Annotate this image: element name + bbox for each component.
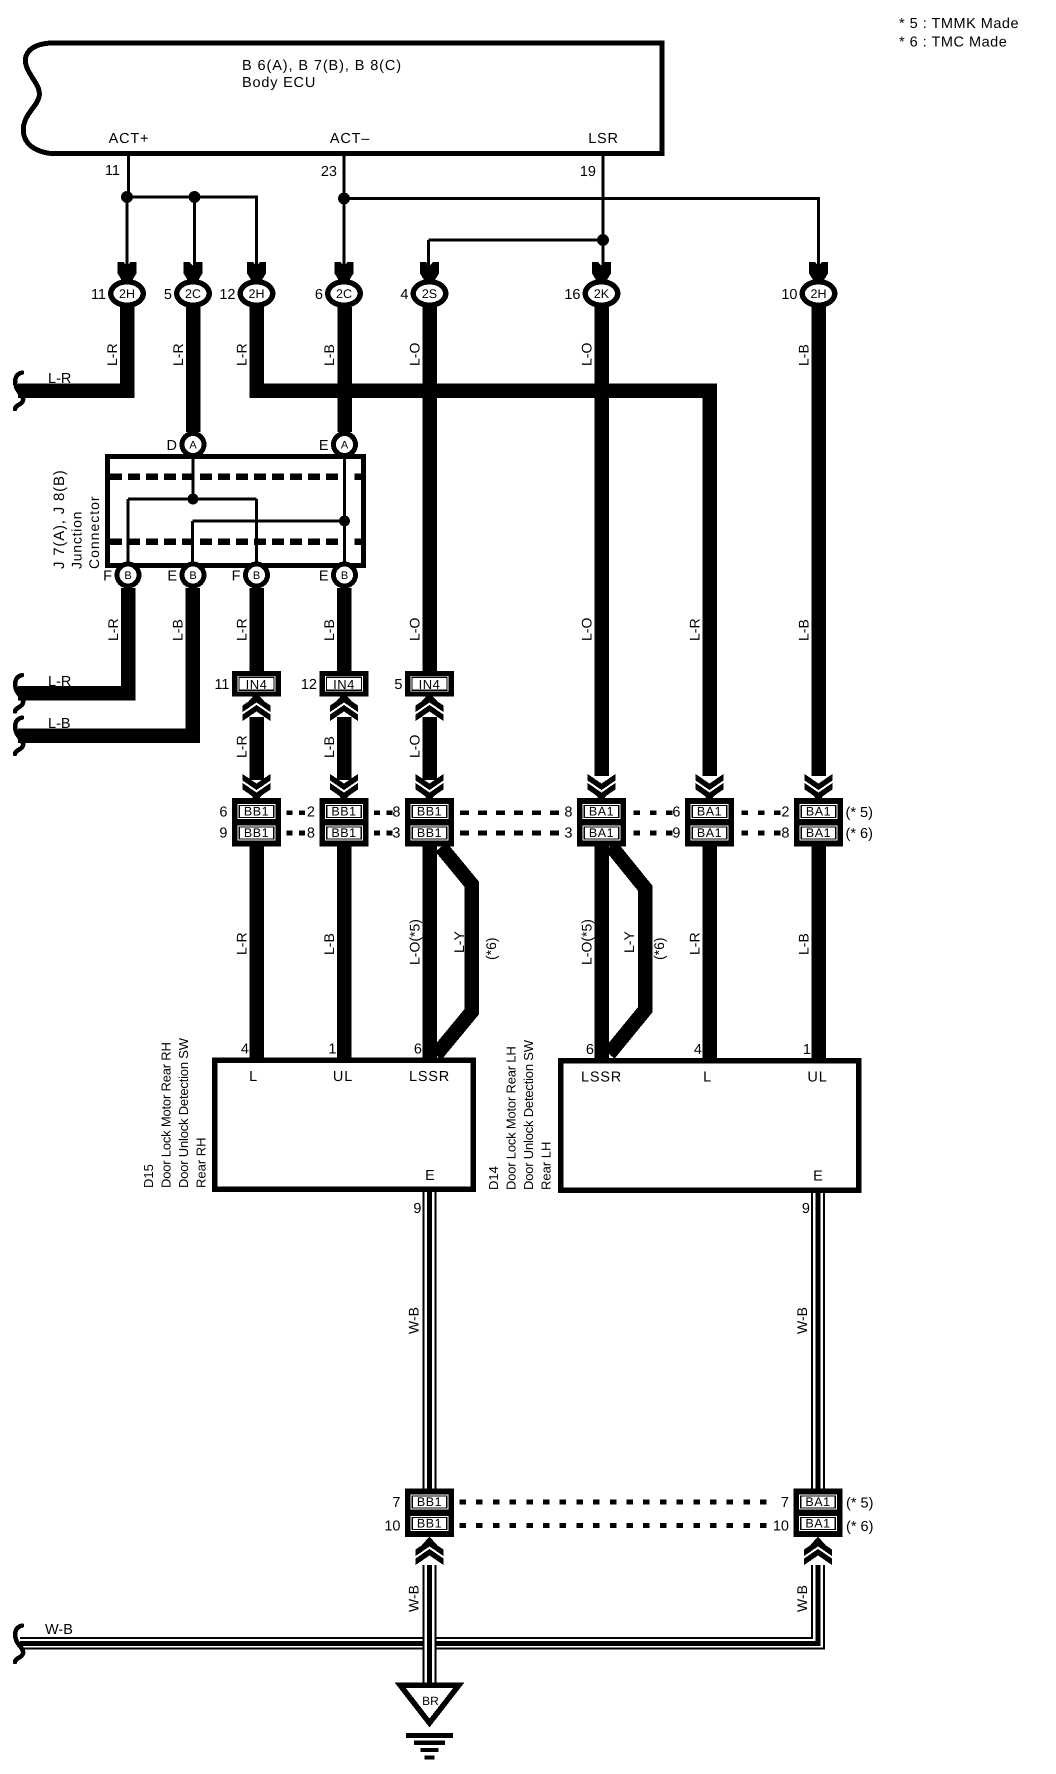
W-B ground bus horizontal [20,1637,825,1650]
svg-text:L-R: L-R [104,343,120,366]
connector stack 7/10 BA1 bottom [773,1489,843,1538]
svg-text:L-R: L-R [170,343,186,366]
wire col6 from connector down to BA1 [594,307,609,776]
internal junction dot D [188,494,199,505]
wire L-Y(*6) branch right LSSR [609,846,645,1054]
svg-text:1: 1 [803,1042,811,1058]
svg-text:BB1: BB1 [417,826,442,840]
wire ACT+ branch horizontal [127,196,258,199]
wire label L-B mid column x=344 [321,619,337,641]
svg-text:4: 4 [241,1042,249,1058]
wire label L-O below connector at x=601.5 [579,343,595,366]
variant note (*6) bottom [846,1519,873,1535]
dashed link BB1 row [287,810,781,835]
wire label L-B col4 lower [321,933,337,955]
svg-text:BA1: BA1 [805,1517,830,1531]
pin 23 number [321,164,337,180]
svg-text:Door Unlock Detection SW: Door Unlock Detection SW [521,1039,536,1190]
wire L-B col7 to D14 pin 1 [811,847,826,1062]
svg-text:Rear RH: Rear RH [194,1137,209,1188]
svg-text:19: 19 [580,164,596,180]
arrow into BB1/BA1 at x=818.5 [805,774,833,802]
internal drop to F/B col3 [255,499,258,563]
svg-text:L-O: L-O [407,343,423,366]
svg-text:W-B: W-B [406,1585,422,1612]
junction connector J7(A) J8(B) box [108,457,364,566]
svg-text:BB1: BB1 [331,826,356,840]
svg-text:D15: D15 [141,1164,156,1188]
pin ACT- label [330,131,370,147]
svg-text:6: 6 [414,1042,422,1058]
wire L-B col4 to D15 pin 1 [337,847,352,1061]
svg-text:2H: 2H [119,287,135,301]
svg-text:ACT+: ACT+ [109,131,150,147]
connector stack 8/3 BB1 at x=429.5 [392,798,454,847]
svg-text:L-R: L-R [48,371,71,387]
svg-text:2: 2 [307,805,315,821]
svg-text:L-O: L-O [579,618,595,641]
svg-text:E: E [319,438,329,454]
svg-text:A: A [341,440,349,452]
wire label L-O IN4-BB1 x=429.5 [407,735,423,758]
svg-text:L: L [249,1069,258,1085]
svg-text:12: 12 [301,677,317,693]
arrow into BB1/BA1 at x=709.5 [696,774,724,802]
svg-text:L-B: L-B [796,344,812,366]
svg-text:16: 16 [564,287,580,303]
W-B wire D14 pin E down [811,1190,825,1489]
svg-text:2S: 2S [422,287,437,301]
svg-text:Door Unlock Detection SW: Door Unlock Detection SW [176,1037,191,1188]
D14 pin label E [813,1169,823,1185]
svg-text:LSR: LSR [588,131,619,147]
D14 pin 6 number [586,1042,594,1058]
svg-text:B: B [189,570,196,582]
svg-text:8: 8 [307,826,315,842]
connector 12 2H [219,279,275,308]
wire label (*6) col5 branch [483,937,499,960]
arrow into connector 12 2H [247,262,266,281]
junction dot ACT+ at col2 [189,191,201,203]
svg-text:J 7(A), J 8(B): J 7(A), J 8(B) [51,469,68,569]
D15 pin label UL [333,1069,353,1085]
wire label L-R below connector at x=127 [104,343,120,366]
internal wire from pin D/A [192,458,195,499]
internal wire from pin E/A [343,458,346,521]
pin 11 number [105,163,120,179]
D14 pin label LSSR [581,1070,622,1086]
wire label L-R mid column x=709.5 [687,618,703,641]
connector 16 2K [564,279,620,308]
junction connector dashed bus 1 [110,473,362,480]
label L-B break [48,716,71,732]
svg-text:L-R: L-R [105,618,121,641]
D15 pin 4 number [241,1042,249,1058]
svg-text:L-Y: L-Y [621,931,637,953]
ground BR triangle [400,1685,459,1723]
wire below IN4 11 [249,717,264,780]
svg-text:E: E [813,1169,823,1185]
svg-text:7: 7 [392,1495,400,1511]
svg-text:L-B: L-B [796,933,812,955]
wire L-R col1 from connector down [120,307,135,398]
svg-text:11: 11 [214,677,229,693]
connector stack 2/8 BB1 at x=344 [307,798,369,847]
wire L-R col1 below junction [121,588,136,701]
wire col3 from connector down [249,307,264,398]
svg-text:L-R: L-R [234,618,250,641]
W-B label left mid [406,1307,422,1334]
svg-text:UL: UL [807,1070,827,1086]
svg-text:F: F [103,569,112,585]
wire L-R col3 to D15 pin 4 [249,847,264,1061]
svg-text:B: B [341,570,348,582]
junction pin E A [319,431,358,458]
svg-text:BA1: BA1 [805,1495,830,1509]
wire LSR pin 19 down [602,156,605,240]
svg-text:L-B: L-B [321,344,337,366]
wire col5 drop to connector [427,240,430,267]
svg-text:(* 5): (* 5) [846,805,873,821]
junction pin F B col1 [103,562,141,589]
svg-text:L-B: L-B [796,619,812,641]
arrow into connector 6 2C [335,262,354,281]
svg-text:W-B: W-B [406,1307,422,1334]
wire label L-R col6b lower [687,932,703,955]
svg-text:L-O(*5): L-O(*5) [579,919,595,965]
svg-text:8: 8 [392,805,400,821]
W-B wire below BB1 [423,1565,437,1686]
svg-text:10: 10 [773,1519,789,1535]
connector stack 2/8 BA1 at x=818.5 [781,798,843,847]
svg-text:D: D [167,438,177,454]
note *5 TMMK Made [899,16,1019,32]
connector 5 2C [164,279,212,308]
wire label L-O mid column x=429.5 [407,618,423,641]
svg-text:3: 3 [564,826,572,842]
connector 11 IN4 [214,671,281,697]
arrow below IN4 12 [330,693,358,722]
svg-text:W-B: W-B [794,1307,810,1334]
svg-text:3: 3 [392,826,400,842]
junction dot ACT- [338,193,350,205]
svg-text:B 6(A), B 7(B), B 8(C): B 6(A), B 7(B), B 8(C) [242,58,402,74]
svg-text:L-R: L-R [234,735,250,758]
internal junction dot E [339,516,350,527]
wire col4 to connector [343,199,346,268]
svg-text:L-O: L-O [579,343,595,366]
svg-text:BB1: BB1 [417,1517,442,1531]
label W-B at break [45,1622,73,1638]
svg-text:6: 6 [586,1042,594,1058]
arrow into BB1/BA1 at x=344 [330,774,358,802]
svg-text:A: A [189,440,197,452]
svg-text:2C: 2C [336,287,352,301]
svg-text:(* 5): (* 5) [846,1496,873,1512]
svg-text:L-R: L-R [234,932,250,955]
svg-text:BA1: BA1 [589,826,614,840]
wire label L-R IN4-BB1 x=256.5 [234,735,250,758]
svg-text:BB1: BB1 [331,805,356,819]
wire label L-R below connector at x=256.5 [234,343,250,366]
D15 left label block [141,1037,209,1188]
junction connector label [51,469,102,569]
wire col4 from connector to junction A [337,307,352,432]
svg-text:5: 5 [164,287,172,303]
connector stack 8/3 BA1 at x=601.5 [564,798,626,847]
arrow into connector 4 2S [420,262,439,281]
wire ACT+ pin 11 down [127,156,130,197]
wire label (*6) col6 branch [651,937,667,960]
W-B wire D15 pin E down [423,1189,437,1489]
svg-text:L-B: L-B [170,619,186,641]
svg-text:10: 10 [781,287,797,303]
svg-text:23: 23 [321,164,337,180]
svg-text:BR: BR [422,1694,439,1708]
svg-text:(*6): (*6) [651,937,667,960]
wire below IN4 12 [337,717,352,780]
arrow into BB1/BA1 at x=601.5 [588,774,616,802]
wire label L-B mid column x=818.5 [796,619,812,641]
svg-text:Junction: Junction [69,511,85,569]
arrow below IN4 11 [243,693,271,722]
svg-text:4: 4 [694,1042,702,1058]
arrow into connector 10 2H [809,262,828,281]
variant note (*5) row1 [846,805,873,821]
D14 pin 9 number [802,1201,810,1217]
wire col7 from connector down to BA1 [811,307,826,776]
wire label L-O below connector at x=429.5 [407,343,423,366]
door lock motor rear LH D14 box [561,1061,859,1191]
svg-text:IN4: IN4 [419,677,441,692]
svg-text:BB1: BB1 [417,1495,442,1509]
connector 5 IN4 [394,671,454,697]
svg-text:IN4: IN4 [333,677,355,692]
wire col5 from connector down to IN4 [422,307,437,671]
wire col6b vertical down to BA1 [702,384,717,777]
wire L-R col6b to D14 pin 4 [702,847,717,1062]
svg-text:B: B [124,570,131,582]
junction connector dashed bus 2 [110,538,362,545]
svg-text:BB1: BB1 [244,805,269,819]
arrow below bottom BA1 [804,1537,832,1566]
D15 pin 9 number [413,1201,421,1217]
svg-text:ACT–: ACT– [330,131,370,147]
wire L-B horizontal to break [18,729,200,744]
connector stack 6/9 BB1 at x=256.5 [219,798,281,847]
internal bus E [193,520,345,523]
internal drop to E/B col2 [191,521,194,563]
svg-text:11: 11 [105,163,120,179]
svg-text:L-O(*5): L-O(*5) [407,919,423,965]
svg-text:Door Lock Motor Rear RH: Door Lock Motor Rear RH [159,1042,174,1188]
connector 10 2H [781,279,837,308]
svg-text:6: 6 [672,805,680,821]
svg-text:2H: 2H [811,287,827,301]
dashed link bottom row [460,1500,767,1529]
wire col3 horizontal to col6b [249,384,717,399]
internal drop to E/B col4 [343,521,346,563]
svg-text:L-R: L-R [234,343,250,366]
junction pin F B col3 [232,562,270,589]
svg-text:BB1: BB1 [244,826,269,840]
connector stack 6/9 BA1 at x=709.5 [672,798,734,847]
svg-text:W-B: W-B [45,1622,73,1638]
wire break symbol L-B [15,718,23,755]
W-B label right low [794,1585,810,1612]
wire ACT- branch horizontal [344,197,820,200]
arrow into BB1/BA1 at x=256.5 [243,774,271,802]
variant note (*6) row2 [846,826,873,842]
ground hatch [406,1733,453,1760]
svg-text:L-O: L-O [407,618,423,641]
wire L-O(*5) col5 to D15 pin 6 [422,847,437,1061]
D15 pin label LSSR [409,1069,450,1085]
svg-text:Rear LH: Rear LH [539,1142,554,1190]
svg-text:L-B: L-B [321,736,337,758]
svg-text:2: 2 [781,805,789,821]
note *6 TMC Made [899,35,1007,51]
wire ACT- pin 23 down [343,156,346,199]
svg-text:L-B: L-B [321,933,337,955]
wire break symbol L-R lower [15,675,23,712]
svg-text:(* 6): (* 6) [846,826,873,842]
svg-text:L-R: L-R [687,932,703,955]
connector 12 IN4 [301,671,369,697]
svg-text:L-O: L-O [407,735,423,758]
svg-text:BA1: BA1 [806,826,831,840]
D15 pin 1 number [328,1042,336,1058]
junction pin D A [167,431,207,458]
wire L-Y(*6) branch left LSSR [436,847,472,1055]
wire break symbol W-B [15,1626,23,1663]
arrow into connector 11 2H [118,262,137,281]
svg-text:4: 4 [400,287,408,303]
label L-R at break [48,371,71,387]
wire LSR branch horizontal [429,239,604,242]
svg-text:B: B [253,570,260,582]
wire label L-R mid column x=256.5 [234,618,250,641]
svg-text:IN4: IN4 [246,677,268,692]
svg-text:L: L [703,1070,712,1086]
svg-text:9: 9 [802,1201,810,1217]
door lock motor rear RH D15 box [215,1060,474,1189]
D14 pin 4 number [694,1042,702,1058]
svg-text:L-R: L-R [687,618,703,641]
svg-text:LSSR: LSSR [409,1069,450,1085]
wire label L-R col3 lower [234,932,250,955]
wire label L-B mid column x=192.5 [170,619,186,641]
svg-text:UL: UL [333,1069,353,1085]
wire col1 to connector [126,197,129,267]
svg-text:BA1: BA1 [697,826,722,840]
svg-text:(* 6): (* 6) [846,1519,873,1535]
svg-text:W-B: W-B [794,1585,810,1612]
svg-text:E: E [167,569,177,585]
connector 6 2C [315,279,363,308]
svg-text:L-B: L-B [48,716,71,732]
connector 4 2S [400,279,448,308]
arrow into connector 16 2K [592,262,611,281]
svg-text:6: 6 [315,287,323,303]
svg-text:LSSR: LSSR [581,1070,622,1086]
svg-text:E: E [319,569,329,585]
svg-text:2K: 2K [594,287,610,301]
internal bus D [128,498,257,501]
svg-text:8: 8 [564,805,572,821]
svg-text:BB1: BB1 [417,805,442,819]
wire col6 to connector [602,240,605,267]
wire label L-O(*5) col5 [407,919,423,965]
junction pin E B col2 [167,562,206,589]
D15 pin label L [249,1069,258,1085]
wire L-O(*5) col6 to D14 pin 6 [594,847,609,1062]
svg-text:Connector: Connector [86,495,102,569]
svg-text:9: 9 [219,826,227,842]
svg-text:* 6 : TMC Made: * 6 : TMC Made [899,35,1007,51]
svg-text:F: F [232,569,241,585]
arrow into BB1/BA1 at x=429.5 [416,774,444,802]
arrow below IN4 5 [416,693,444,722]
W-B label right mid [794,1307,810,1334]
D15 pin 6 number [414,1042,422,1058]
svg-text:D14: D14 [486,1166,501,1190]
variant note (*5) bottom [846,1496,873,1512]
wire col3 junction to IN4 [249,588,264,671]
wire label L-O mid column x=601.5 [579,618,595,641]
svg-text:L-R: L-R [48,674,71,690]
wire label L-R below connector at x=193 [170,343,186,366]
W-B wire below BA1 to corner [811,1565,825,1650]
svg-text:11: 11 [91,287,106,303]
svg-text:(*6): (*6) [483,937,499,960]
D14 pin label L [703,1070,712,1086]
D14 pin 1 number [803,1042,811,1058]
wire label L-B below connector at x=344 [321,344,337,366]
connector 11 2H [91,279,146,308]
W-B wire col5 crossing ground bus [423,1636,437,1651]
connector stack 7/10 BB1 bottom [384,1489,454,1538]
wire L-R horizontal to break (lower) [18,686,135,701]
wire col2 from connector to junction A [186,307,201,432]
svg-text:10: 10 [384,1519,400,1535]
wire L-B col2 below junction [185,588,200,743]
wire label L-B IN4-BB1 x=344 [321,736,337,758]
svg-text:Door Lock Motor Rear LH: Door Lock Motor Rear LH [504,1046,519,1190]
wire col2 to connector [193,197,196,267]
svg-text:L-B: L-B [321,619,337,641]
wire label L-B below connector at x=818.5 [796,344,812,366]
wire label L-B col7 lower [796,933,812,955]
internal drop to F/B col1 [127,499,130,563]
wire col4 junction to IN4 [337,588,352,671]
arrow into connector 5 2C [184,262,203,281]
svg-text:5: 5 [394,677,402,693]
junction dot LSR [597,234,609,246]
wire below IN4 5 [422,717,437,780]
svg-text:6: 6 [219,805,227,821]
svg-text:1: 1 [328,1042,336,1058]
wire label L-Y col5 branch [451,931,467,953]
svg-text:7: 7 [781,1495,789,1511]
pin 19 number [580,164,596,180]
svg-text:9: 9 [672,826,680,842]
arrow below bottom BB1 [416,1537,444,1566]
label L-R lower break [48,674,71,690]
svg-text:2H: 2H [249,287,265,301]
junction dot ACT+ at col1 [121,191,133,203]
svg-text:* 5 : TMMK Made: * 5 : TMMK Made [899,16,1019,32]
